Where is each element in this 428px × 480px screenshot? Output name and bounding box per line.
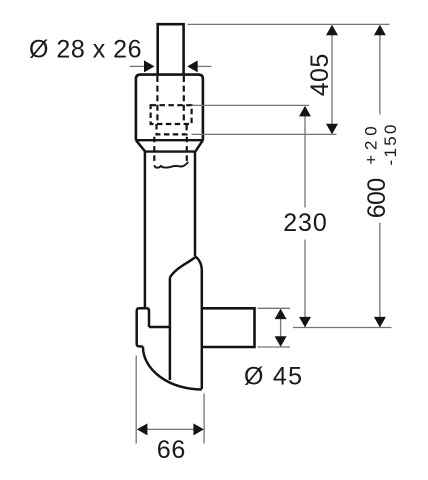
svg-text:230: 230 [283, 209, 327, 237]
dimension 600 line [379, 26, 381, 327]
leader line insert bottom [192, 133, 337, 135]
d28 left leader arrow [130, 65, 146, 67]
nut bottom edge [145, 150, 195, 152]
cup front edge [169, 278, 172, 381]
extension line from pipe top [188, 23, 390, 25]
hidden sleeve left edge (dashed) [153, 137, 155, 165]
nut chamfer band line [136, 139, 203, 141]
dimension d45 arrow [280, 310, 282, 346]
inlet pipe [158, 24, 184, 75]
hidden sleeve right edge (dashed) [186, 137, 188, 162]
svg-text:405: 405 [306, 54, 334, 97]
cup shoulder curve [170, 257, 195, 277]
trap bottom arc [143, 347, 202, 390]
svg-text:66: 66 [157, 436, 186, 464]
nut right chamfer [195, 140, 203, 151]
svg-text:Ø 45: Ø 45 [244, 362, 302, 390]
hidden insert upper rect (dashed) [151, 105, 192, 124]
wall bracket tab [137, 308, 149, 346]
step ledge line [149, 326, 170, 329]
hidden pipe right edge (dashed) [183, 76, 185, 124]
pipe break squiggle [154, 162, 188, 168]
outlet top extension line [258, 307, 291, 309]
dimension 66 line [139, 428, 203, 430]
hidden insert lower rect (dashed) [157, 124, 187, 134]
66 right extension line [203, 394, 205, 444]
outlet pipe [203, 308, 255, 347]
body right step curve [195, 256, 202, 389]
dimension 230 line [304, 107, 306, 327]
outlet centre extension line [293, 327, 392, 329]
leader line insert top [192, 104, 309, 106]
body tube right edge [194, 152, 197, 257]
outlet bottom extension line [258, 346, 291, 348]
svg-text:Ø 28 x 26: Ø 28 x 26 [29, 35, 142, 63]
svg-text:+20: +20 [361, 126, 380, 165]
compression nut body [136, 75, 203, 141]
svg-text:600: 600 [363, 178, 391, 219]
dimension 405 line [331, 26, 333, 133]
body tube left edge [144, 152, 147, 308]
nut left chamfer [136, 140, 145, 151]
hidden pipe left edge (dashed) [156, 76, 158, 124]
d28 right leader arrow [198, 65, 212, 67]
66 left extension line [135, 356, 137, 444]
